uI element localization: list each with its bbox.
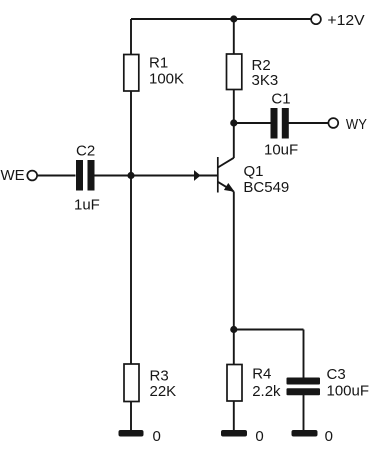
svg-text:22K: 22K [150,383,177,400]
svg-text:10uF: 10uF [264,142,298,159]
svg-text:+12V: +12V [327,12,364,29]
svg-text:0: 0 [325,428,333,445]
svg-text:BC549: BC549 [243,179,289,196]
svg-text:R4: R4 [252,366,271,383]
svg-text:C1: C1 [271,91,290,108]
svg-text:R3: R3 [150,367,169,384]
svg-text:1uF: 1uF [74,197,100,214]
svg-text:Q1: Q1 [244,163,264,180]
svg-text:C3: C3 [327,366,346,383]
svg-text:2.2k: 2.2k [252,383,281,400]
svg-text:0: 0 [255,428,263,445]
svg-text:R1: R1 [149,55,168,72]
svg-text:0: 0 [153,428,161,445]
svg-text:100K: 100K [149,71,184,88]
svg-text:C2: C2 [76,143,95,160]
svg-text:WE: WE [1,167,25,184]
svg-text:3K3: 3K3 [252,72,279,89]
svg-text:WY: WY [346,116,367,133]
svg-text:100uF: 100uF [327,383,370,400]
